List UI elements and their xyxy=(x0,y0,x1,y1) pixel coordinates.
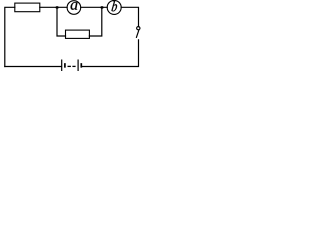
switch S1 terminal circle xyxy=(137,27,140,30)
wire a to voltmeter b xyxy=(81,6,108,8)
wire R1 to ammeter a xyxy=(40,6,67,8)
node A junction dot xyxy=(55,6,58,9)
battery cell 2 short plate xyxy=(80,64,82,67)
voltmeter b xyxy=(107,0,121,14)
wire switch to bottom-right corner to battery xyxy=(82,40,138,67)
meter label a xyxy=(71,2,78,10)
wire battery to bottom-left corner xyxy=(5,66,61,68)
resistor R2 xyxy=(66,30,90,38)
meter label b xyxy=(111,1,117,11)
battery dashed link dash 2 xyxy=(72,65,75,67)
switch S1 blade xyxy=(136,30,138,37)
wire left vertical + top-left segment xyxy=(5,7,15,66)
node B junction dot xyxy=(100,6,103,9)
battery cell 1 short plate xyxy=(64,64,66,67)
ammeter a xyxy=(67,1,81,15)
battery cell 2 long plate xyxy=(77,60,79,70)
battery dashed link dash 1 xyxy=(68,65,71,67)
wire parallel branch right (R2 up to node B) xyxy=(89,7,101,36)
battery cell 1 long plate xyxy=(61,60,63,70)
resistor R1 xyxy=(15,3,40,12)
wire parallel branch left (node A down to R2) xyxy=(57,7,66,36)
wire b to top-right corner and down to switch xyxy=(121,7,138,26)
